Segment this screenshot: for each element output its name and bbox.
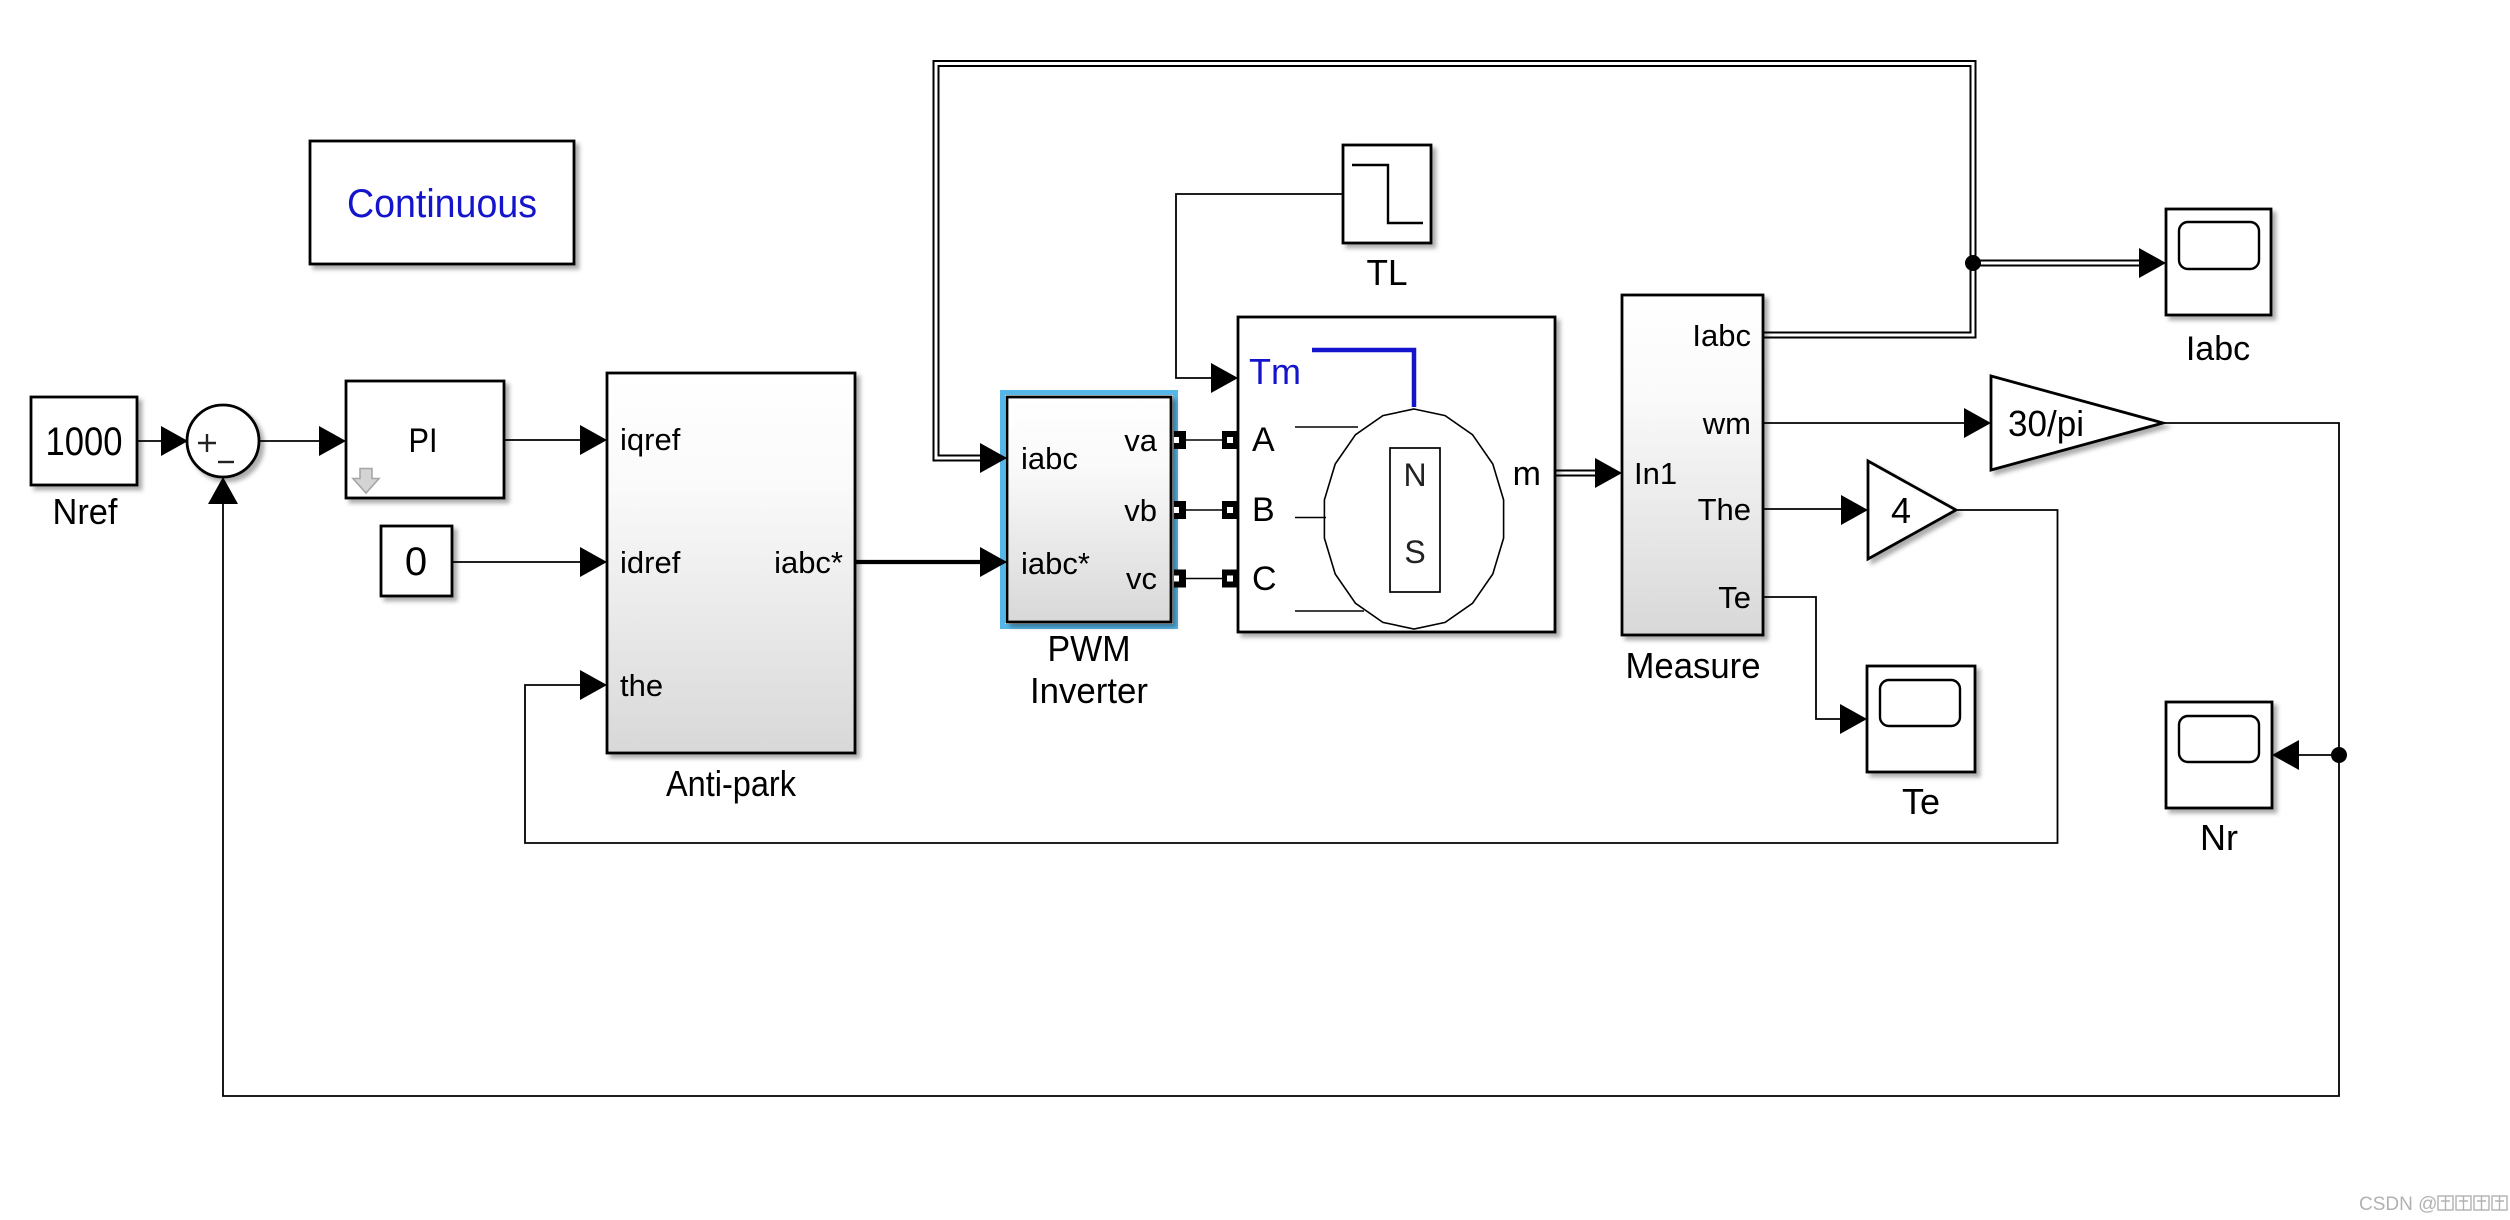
svg-text:30/pi: 30/pi bbox=[2008, 403, 2084, 444]
svg-text:Continuous: Continuous bbox=[347, 182, 537, 226]
svg-text:PWM: PWM bbox=[1048, 628, 1131, 669]
sum block bbox=[187, 405, 259, 477]
svg-text:Iabc: Iabc bbox=[2186, 330, 2250, 368]
step block TL bbox=[1343, 145, 1431, 243]
svg-text:N: N bbox=[1403, 457, 1426, 493]
wire: branch of Iabc bus to Iabc scope, double line bbox=[1973, 260, 2142, 267]
annotation block Continuous (powergui) bbox=[310, 141, 574, 264]
scope Nr (mirrored) bbox=[2166, 702, 2272, 808]
svg-text:Iabc: Iabc bbox=[1692, 318, 1751, 353]
svg-text:4: 4 bbox=[1891, 490, 1911, 531]
wire: PWM va to motor A bbox=[1186, 439, 1222, 441]
physical port connectors between PWM and motor bbox=[1174, 431, 1239, 588]
svg-text:iqref: iqref bbox=[620, 422, 681, 457]
wire: motor m to Measure In1, double line bbox=[1555, 470, 1599, 477]
svg-text:iabc: iabc bbox=[1021, 441, 1078, 476]
svg-text:Inverter: Inverter bbox=[1030, 670, 1148, 711]
wire: Measure The to gain 4 bbox=[1763, 508, 1842, 510]
wire: gain 30/pi output -> right -> down -> bottom -> left -> up into sum bbox=[223, 423, 2339, 1096]
PI controller block bbox=[346, 381, 504, 498]
svg-text:iabc*: iabc* bbox=[1021, 546, 1090, 581]
wire: Measure wm to gain 30/pi bbox=[1763, 422, 1964, 424]
svg-text:Nr: Nr bbox=[2200, 817, 2238, 858]
stator lines bbox=[1295, 427, 1364, 611]
svg-text:1000: 1000 bbox=[46, 420, 123, 464]
svg-text:Te: Te bbox=[1902, 781, 1940, 822]
svg-text:m: m bbox=[1513, 455, 1541, 493]
wire: sum to PI bbox=[259, 440, 321, 442]
svg-text:wm: wm bbox=[1702, 406, 1751, 441]
gain 4 bbox=[1868, 461, 1956, 559]
svg-text:PI: PI bbox=[409, 422, 438, 460]
svg-text:the: the bbox=[620, 668, 663, 703]
arrowhead into Iabc scope bbox=[2139, 248, 2166, 278]
svg-text:vb: vb bbox=[1124, 493, 1157, 528]
junction node on Iabc bus bbox=[1965, 255, 1981, 271]
scope Te bbox=[1867, 666, 1975, 772]
look-under-mask badge arrow bbox=[353, 469, 379, 494]
wire: Measure Te to Te scope bbox=[1763, 597, 1842, 719]
gain 30/pi bbox=[1991, 376, 2163, 470]
svg-text:0: 0 bbox=[405, 540, 427, 584]
junction node on wm feedback bbox=[2331, 747, 2347, 763]
svg-text:Te: Te bbox=[1718, 580, 1751, 615]
wire: branch to Nr scope (flipped scope, input on right) bbox=[2297, 754, 2339, 756]
svg-text:The: The bbox=[1698, 492, 1751, 527]
minus sign bbox=[218, 461, 234, 463]
wire: Anti-park iabc* to PWM iabc* (wide vector line) bbox=[855, 560, 982, 564]
wire: PWM vc to motor C bbox=[1186, 578, 1222, 580]
watermark CSDN bbox=[2359, 1194, 2437, 1215]
plus sign bbox=[198, 434, 216, 452]
svg-text:TL: TL bbox=[1367, 252, 1408, 293]
svg-text:iabc*: iabc* bbox=[774, 545, 843, 580]
wire: constant 1000 to sum bbox=[137, 440, 163, 442]
subsystem Anti-park bbox=[607, 373, 855, 753]
arrowhead into PWM iabc* bbox=[980, 547, 1007, 577]
PMSM motor block bbox=[1238, 317, 1555, 632]
wire: theta feedback (gain4 out -> down -> left -> up -> Anti-park the) bbox=[525, 510, 2058, 843]
wire: TL step to motor Tm bbox=[1176, 194, 1343, 378]
svg-text:In1: In1 bbox=[1634, 456, 1677, 491]
wire: constant 0 to Anti-park idref bbox=[452, 561, 582, 563]
scope Iabc bbox=[2166, 209, 2271, 315]
subsystem PWM Inverter (selected, cyan outline) bbox=[1003, 393, 1176, 627]
magnet N/S bbox=[1390, 448, 1440, 592]
rotor circle (polygon) bbox=[1324, 409, 1503, 629]
blue Tm wire inside motor bbox=[1312, 350, 1414, 407]
svg-text:va: va bbox=[1124, 423, 1158, 458]
wire: PWM vb to motor B bbox=[1186, 509, 1222, 511]
svg-text:C: C bbox=[1252, 560, 1277, 598]
subsystem Measure bbox=[1622, 295, 1763, 635]
svg-text:CSDN @: CSDN @ bbox=[2359, 1194, 2437, 1215]
svg-text:Measure: Measure bbox=[1626, 645, 1761, 686]
svg-text:idref: idref bbox=[620, 545, 681, 580]
constant block 1000 bbox=[31, 397, 137, 485]
svg-text:vc: vc bbox=[1126, 561, 1157, 596]
wire: feedback bus Iabc (Measure.Iabc -> top -> PWM.iabc), double line bbox=[936, 64, 1973, 459]
arrowhead into PWM iabc bbox=[980, 443, 1007, 473]
svg-text:Anti-park: Anti-park bbox=[666, 763, 797, 804]
svg-text:Nref: Nref bbox=[53, 491, 119, 532]
svg-text:S: S bbox=[1404, 534, 1425, 570]
svg-text:Tm: Tm bbox=[1249, 351, 1301, 392]
constant block 0 bbox=[381, 526, 452, 596]
wire: PI to Anti-park iqref bbox=[504, 439, 582, 441]
svg-text:A: A bbox=[1252, 421, 1275, 459]
svg-text:B: B bbox=[1252, 491, 1275, 529]
